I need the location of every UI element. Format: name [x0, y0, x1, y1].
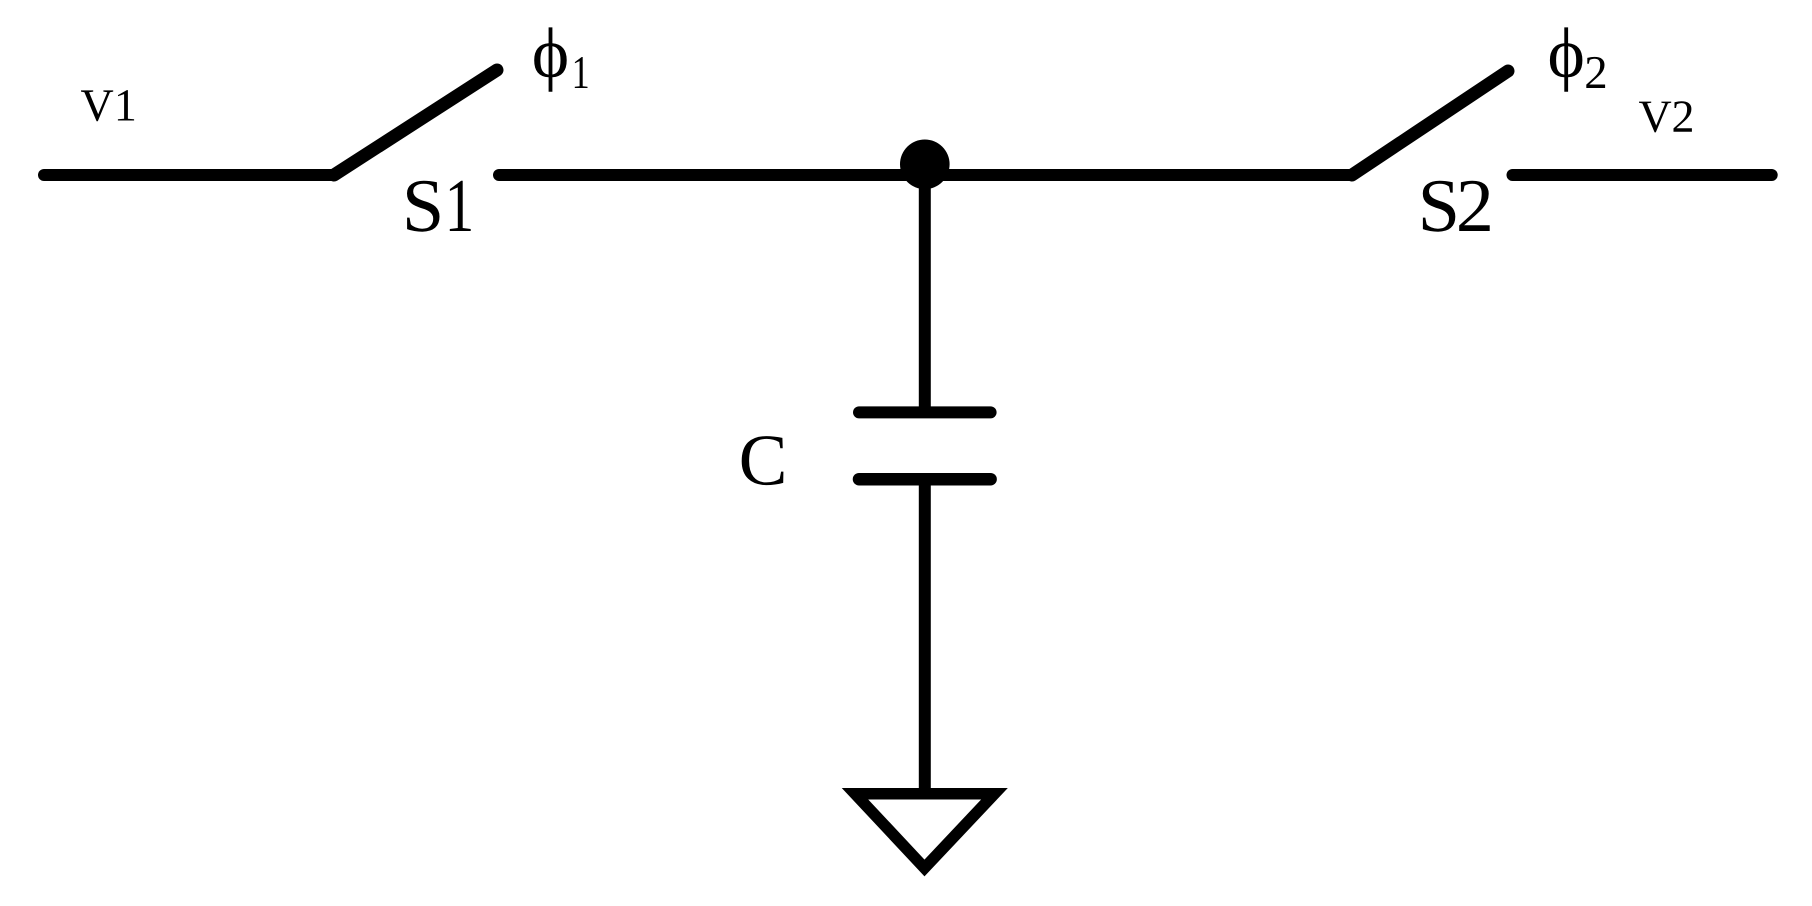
- wire V1 to S1 pivot: [44, 169, 334, 181]
- switch S1 arm: [334, 70, 497, 175]
- capacitor C label: [742, 436, 784, 485]
- wire node to capacitor top plate: [919, 164, 931, 412]
- capacitor C bottom plate: [859, 473, 991, 486]
- switch S1 label: [407, 181, 471, 232]
- capacitor C top plate: [859, 406, 991, 418]
- node phi2 label: [1550, 27, 1605, 91]
- wire S2 to V2: [1513, 169, 1772, 181]
- switch S2 label: [1423, 181, 1490, 232]
- wire S1 to S2 pivot: [499, 169, 1352, 181]
- ground symbol: [855, 794, 995, 868]
- node V1 label: [81, 90, 134, 121]
- junction node dot: [900, 140, 950, 190]
- node phi1 label: [534, 27, 587, 91]
- wire capacitor to ground: [919, 479, 931, 793]
- switch S2 arm: [1352, 71, 1508, 175]
- node V2 label: [1639, 101, 1692, 132]
